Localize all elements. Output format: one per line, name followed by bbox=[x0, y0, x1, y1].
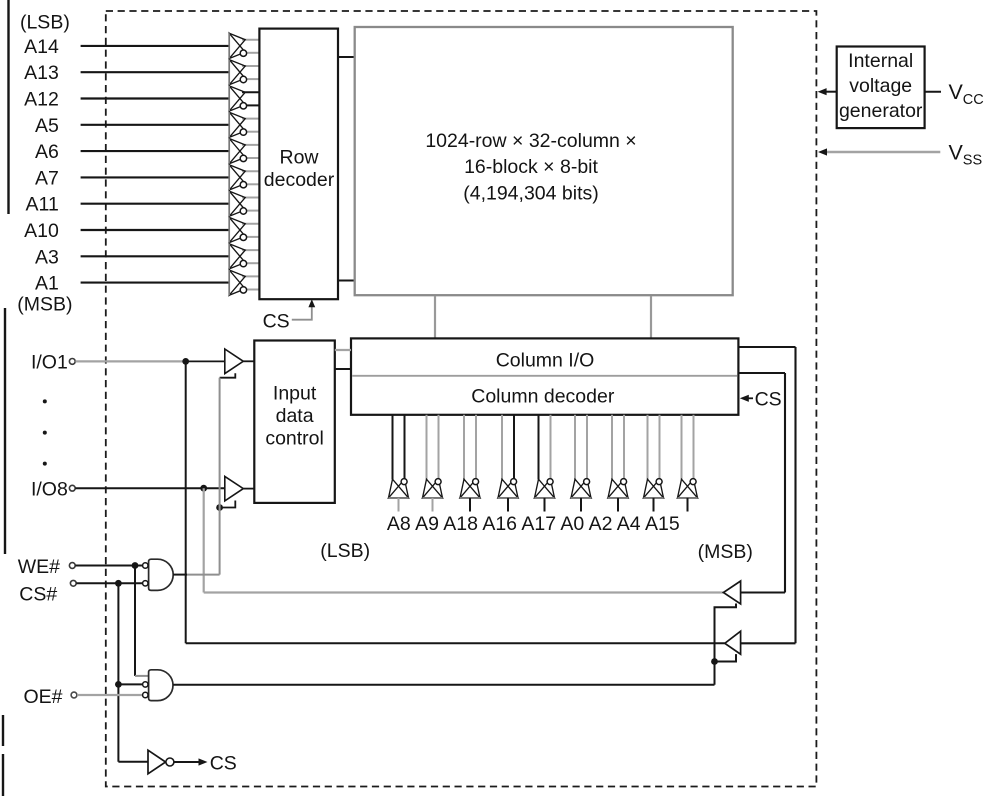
svg-text:CS: CS bbox=[210, 753, 237, 775]
label I/O1 bbox=[31, 352, 68, 374]
output buffer lower bbox=[725, 631, 741, 654]
column address buffer A0 bbox=[571, 415, 591, 512]
gate G2 (output enable NAND) bbox=[143, 670, 173, 701]
column address buffer A8 bbox=[389, 415, 409, 512]
label A1 bbox=[35, 273, 59, 295]
wire CS# vertical bbox=[117, 583, 119, 761]
wire A13 input bbox=[81, 71, 229, 73]
node WE# junction bbox=[132, 562, 139, 569]
wire I/O8 read horizontal bbox=[204, 591, 724, 593]
label (MSB) bottom bbox=[698, 541, 753, 563]
wire array to column io right bbox=[650, 296, 652, 338]
wire WE# bbox=[75, 565, 142, 567]
label VSS bbox=[949, 141, 983, 169]
svg-text:V: V bbox=[949, 80, 964, 104]
feedback outer vertical bbox=[794, 347, 796, 643]
svg-text:16-block × 8-bit: 16-block × 8-bit bbox=[464, 156, 598, 178]
memory array text bbox=[425, 130, 636, 205]
svg-text:I/O1: I/O1 bbox=[31, 352, 68, 374]
column address buffer A17 bbox=[535, 415, 555, 512]
input buffer lower (I/O8) bbox=[225, 476, 255, 501]
node CS# junction bbox=[115, 580, 122, 587]
label OE# bbox=[24, 686, 63, 708]
node I/O1 junction bbox=[182, 358, 189, 365]
column address buffer A2 bbox=[608, 415, 628, 512]
column decoder text bbox=[471, 386, 615, 408]
node CS# to G2 junction bbox=[115, 681, 122, 688]
memory array box bbox=[355, 27, 733, 295]
node enable junction bbox=[216, 504, 223, 511]
svg-text:A7: A7 bbox=[35, 167, 59, 189]
terminal WE# bbox=[69, 563, 75, 569]
input data control text bbox=[265, 383, 324, 450]
label A12 bbox=[24, 89, 59, 111]
svg-text:control: control bbox=[265, 427, 324, 449]
svg-text:Column I/O: Column I/O bbox=[496, 349, 595, 371]
wire CS# to gate G2 bbox=[118, 683, 142, 685]
svg-text:(LSB): (LSB) bbox=[20, 12, 70, 34]
row decoder box bbox=[259, 29, 338, 300]
label (LSB) top bbox=[20, 12, 70, 34]
wire A10 input bbox=[81, 229, 229, 231]
svg-text:A13: A13 bbox=[24, 62, 59, 84]
wire CS output bbox=[174, 758, 208, 765]
svg-text:WE#: WE# bbox=[18, 556, 60, 578]
terminal CS# bbox=[70, 580, 76, 586]
wire A3 input bbox=[81, 255, 229, 257]
wire lower input buffer enable bbox=[220, 501, 236, 508]
internal voltage generator box bbox=[837, 47, 925, 129]
ellipsis dots bbox=[43, 399, 47, 465]
wire upper output buffer input bbox=[741, 591, 785, 593]
svg-text:CC: CC bbox=[963, 92, 984, 108]
column address buffer A15 bbox=[678, 415, 698, 512]
svg-text:(4,194,304 bits): (4,194,304 bits) bbox=[463, 182, 599, 204]
wire A1 input bbox=[81, 282, 229, 284]
svg-text:V: V bbox=[949, 141, 964, 165]
wire row decoder to array bottom bbox=[338, 280, 356, 282]
terminal OE# bbox=[71, 692, 77, 698]
address buffer A14 bbox=[229, 33, 259, 58]
cs arrow into column decoder bbox=[740, 395, 753, 402]
label A7 bbox=[35, 167, 59, 189]
column address buffer A4 bbox=[644, 415, 664, 512]
gate G1 (write NAND) bbox=[143, 559, 174, 590]
svg-text:CS: CS bbox=[263, 311, 290, 333]
svg-text:voltage: voltage bbox=[849, 75, 912, 97]
wire upper input buffer enable bbox=[220, 373, 236, 378]
address buffer A13 bbox=[229, 60, 259, 85]
wire I/O1 junction to input buffer bbox=[186, 360, 225, 362]
wire A7 input bbox=[81, 176, 229, 178]
svg-text:OE#: OE# bbox=[24, 686, 63, 708]
wire CS# to inverter bbox=[118, 761, 148, 763]
wire CS# bbox=[76, 582, 142, 584]
svg-text:A6: A6 bbox=[35, 141, 59, 163]
label (MSB) left bbox=[17, 294, 72, 316]
chip boundary (dashed) bbox=[106, 11, 817, 787]
wire WE# to gate G2 bbox=[135, 566, 149, 676]
wire I/O1 read horizontal bbox=[186, 642, 725, 644]
label WE# bbox=[18, 556, 60, 578]
label A3 bbox=[35, 246, 59, 268]
wire output enable net bbox=[715, 604, 737, 685]
column decoder divider bbox=[352, 375, 737, 377]
address buffer A7 bbox=[229, 165, 259, 190]
column address buffer A9 bbox=[423, 415, 443, 512]
svg-text:A3: A3 bbox=[35, 246, 59, 268]
wire CS to row decoder bbox=[292, 299, 315, 320]
svg-text:generator: generator bbox=[839, 100, 923, 122]
label I/O8 bbox=[31, 478, 68, 500]
svg-text:A10: A10 bbox=[24, 220, 59, 242]
address buffer A1 bbox=[229, 270, 259, 295]
internal voltage generator text bbox=[839, 50, 923, 122]
label (LSB) bottom bbox=[320, 540, 370, 562]
column address buffer A18 bbox=[460, 415, 480, 512]
wire array to column io left bbox=[434, 296, 436, 338]
page edge artifact line 2 bbox=[4, 308, 6, 554]
svg-text:CS: CS bbox=[755, 389, 782, 411]
inverter U1 bbox=[148, 750, 174, 774]
label CS (column decoder) bbox=[755, 389, 782, 411]
wire A5 input bbox=[81, 124, 229, 126]
wire A14 input bbox=[81, 45, 229, 47]
label A5 bbox=[35, 115, 59, 137]
page edge artifact line 3 bbox=[2, 715, 4, 746]
label A14 bbox=[24, 36, 59, 58]
label A6 bbox=[35, 141, 59, 163]
address buffer A11 bbox=[229, 191, 259, 216]
svg-text:Column decoder: Column decoder bbox=[471, 386, 615, 408]
svg-text:CS#: CS# bbox=[19, 583, 57, 605]
label CS (row decoder) bbox=[263, 311, 290, 333]
wire row decoder to array top bbox=[338, 56, 356, 58]
wire A12 input bbox=[81, 97, 229, 99]
svg-text:Input: Input bbox=[273, 383, 317, 405]
svg-text:Internal: Internal bbox=[848, 50, 913, 72]
column io text bbox=[496, 349, 595, 371]
feedback inner horizontal bbox=[738, 372, 785, 374]
wire I/O1 to junction bbox=[75, 360, 185, 362]
wire lower output buffer input bbox=[741, 642, 796, 644]
address buffer A6 bbox=[229, 139, 259, 164]
svg-text:A5: A5 bbox=[35, 115, 59, 137]
svg-text:SS: SS bbox=[963, 152, 982, 168]
feedback inner vertical bbox=[784, 373, 786, 593]
labels A8 A9 A18 A16 A17 A0 A2 A4 A15 bbox=[387, 513, 680, 535]
wire VCC bbox=[925, 91, 941, 93]
output buffer upper bbox=[723, 581, 740, 604]
svg-text:A11: A11 bbox=[26, 194, 59, 216]
wire G2 output bbox=[173, 684, 714, 686]
svg-text:1024-row × 32-column ×: 1024-row × 32-column × bbox=[425, 130, 636, 152]
wire idc to column io lower bbox=[335, 368, 351, 370]
wire IVG to chip bbox=[818, 88, 837, 95]
wire I/O1 read vertical bbox=[185, 361, 187, 643]
svg-text:I/O8: I/O8 bbox=[31, 478, 68, 500]
svg-text:A1: A1 bbox=[35, 273, 59, 295]
feedback outer horizontal bbox=[738, 346, 795, 348]
address buffer A3 bbox=[229, 244, 259, 269]
svg-text:data: data bbox=[276, 405, 314, 427]
wire G1 output bbox=[173, 574, 219, 576]
label VCC bbox=[949, 80, 984, 108]
label A13 bbox=[24, 62, 59, 84]
label CS# bbox=[19, 583, 57, 605]
column io box bbox=[351, 338, 738, 414]
label A11 bbox=[26, 194, 59, 216]
svg-text:A8 A9 A18 A16 A17 A0 A2 A4 A15: A8 A9 A18 A16 A17 A0 A2 A4 A15 bbox=[387, 513, 680, 535]
svg-text:Row: Row bbox=[279, 146, 319, 168]
wire A11 input bbox=[81, 203, 229, 205]
terminal I/O1 bbox=[69, 359, 75, 365]
label A10 bbox=[24, 220, 59, 242]
wire I/O8 read vertical bbox=[203, 488, 205, 592]
wire idc to column io upper bbox=[335, 349, 351, 351]
address buffer A5 bbox=[229, 112, 259, 137]
svg-text:(LSB): (LSB) bbox=[320, 540, 370, 562]
wire write enable vertical bbox=[219, 378, 221, 575]
row decoder text bbox=[264, 146, 335, 191]
svg-text:(MSB): (MSB) bbox=[17, 294, 72, 316]
page edge artifact line 1 bbox=[7, 0, 9, 214]
wire OE# bbox=[77, 694, 143, 696]
address buffer A10 bbox=[229, 217, 259, 242]
node output enable junction bbox=[711, 658, 718, 665]
input buffer upper (I/O1) bbox=[225, 349, 255, 374]
svg-text:A14: A14 bbox=[24, 36, 59, 58]
svg-text:(MSB): (MSB) bbox=[698, 541, 753, 563]
page edge artifact line 4 bbox=[2, 754, 4, 796]
svg-text:decoder: decoder bbox=[264, 169, 335, 191]
wire I/O8 to input buffer bbox=[75, 487, 224, 489]
wire VSS bbox=[818, 148, 940, 155]
wire A6 input bbox=[81, 150, 229, 152]
label CS (bottom) bbox=[210, 753, 237, 775]
node I/O8 junction bbox=[200, 485, 207, 492]
svg-text:A12: A12 bbox=[24, 89, 59, 111]
terminal I/O8 bbox=[69, 485, 75, 491]
input data control box bbox=[254, 341, 334, 503]
column address buffer A16 bbox=[498, 415, 518, 512]
address buffer A12 bbox=[229, 86, 259, 111]
